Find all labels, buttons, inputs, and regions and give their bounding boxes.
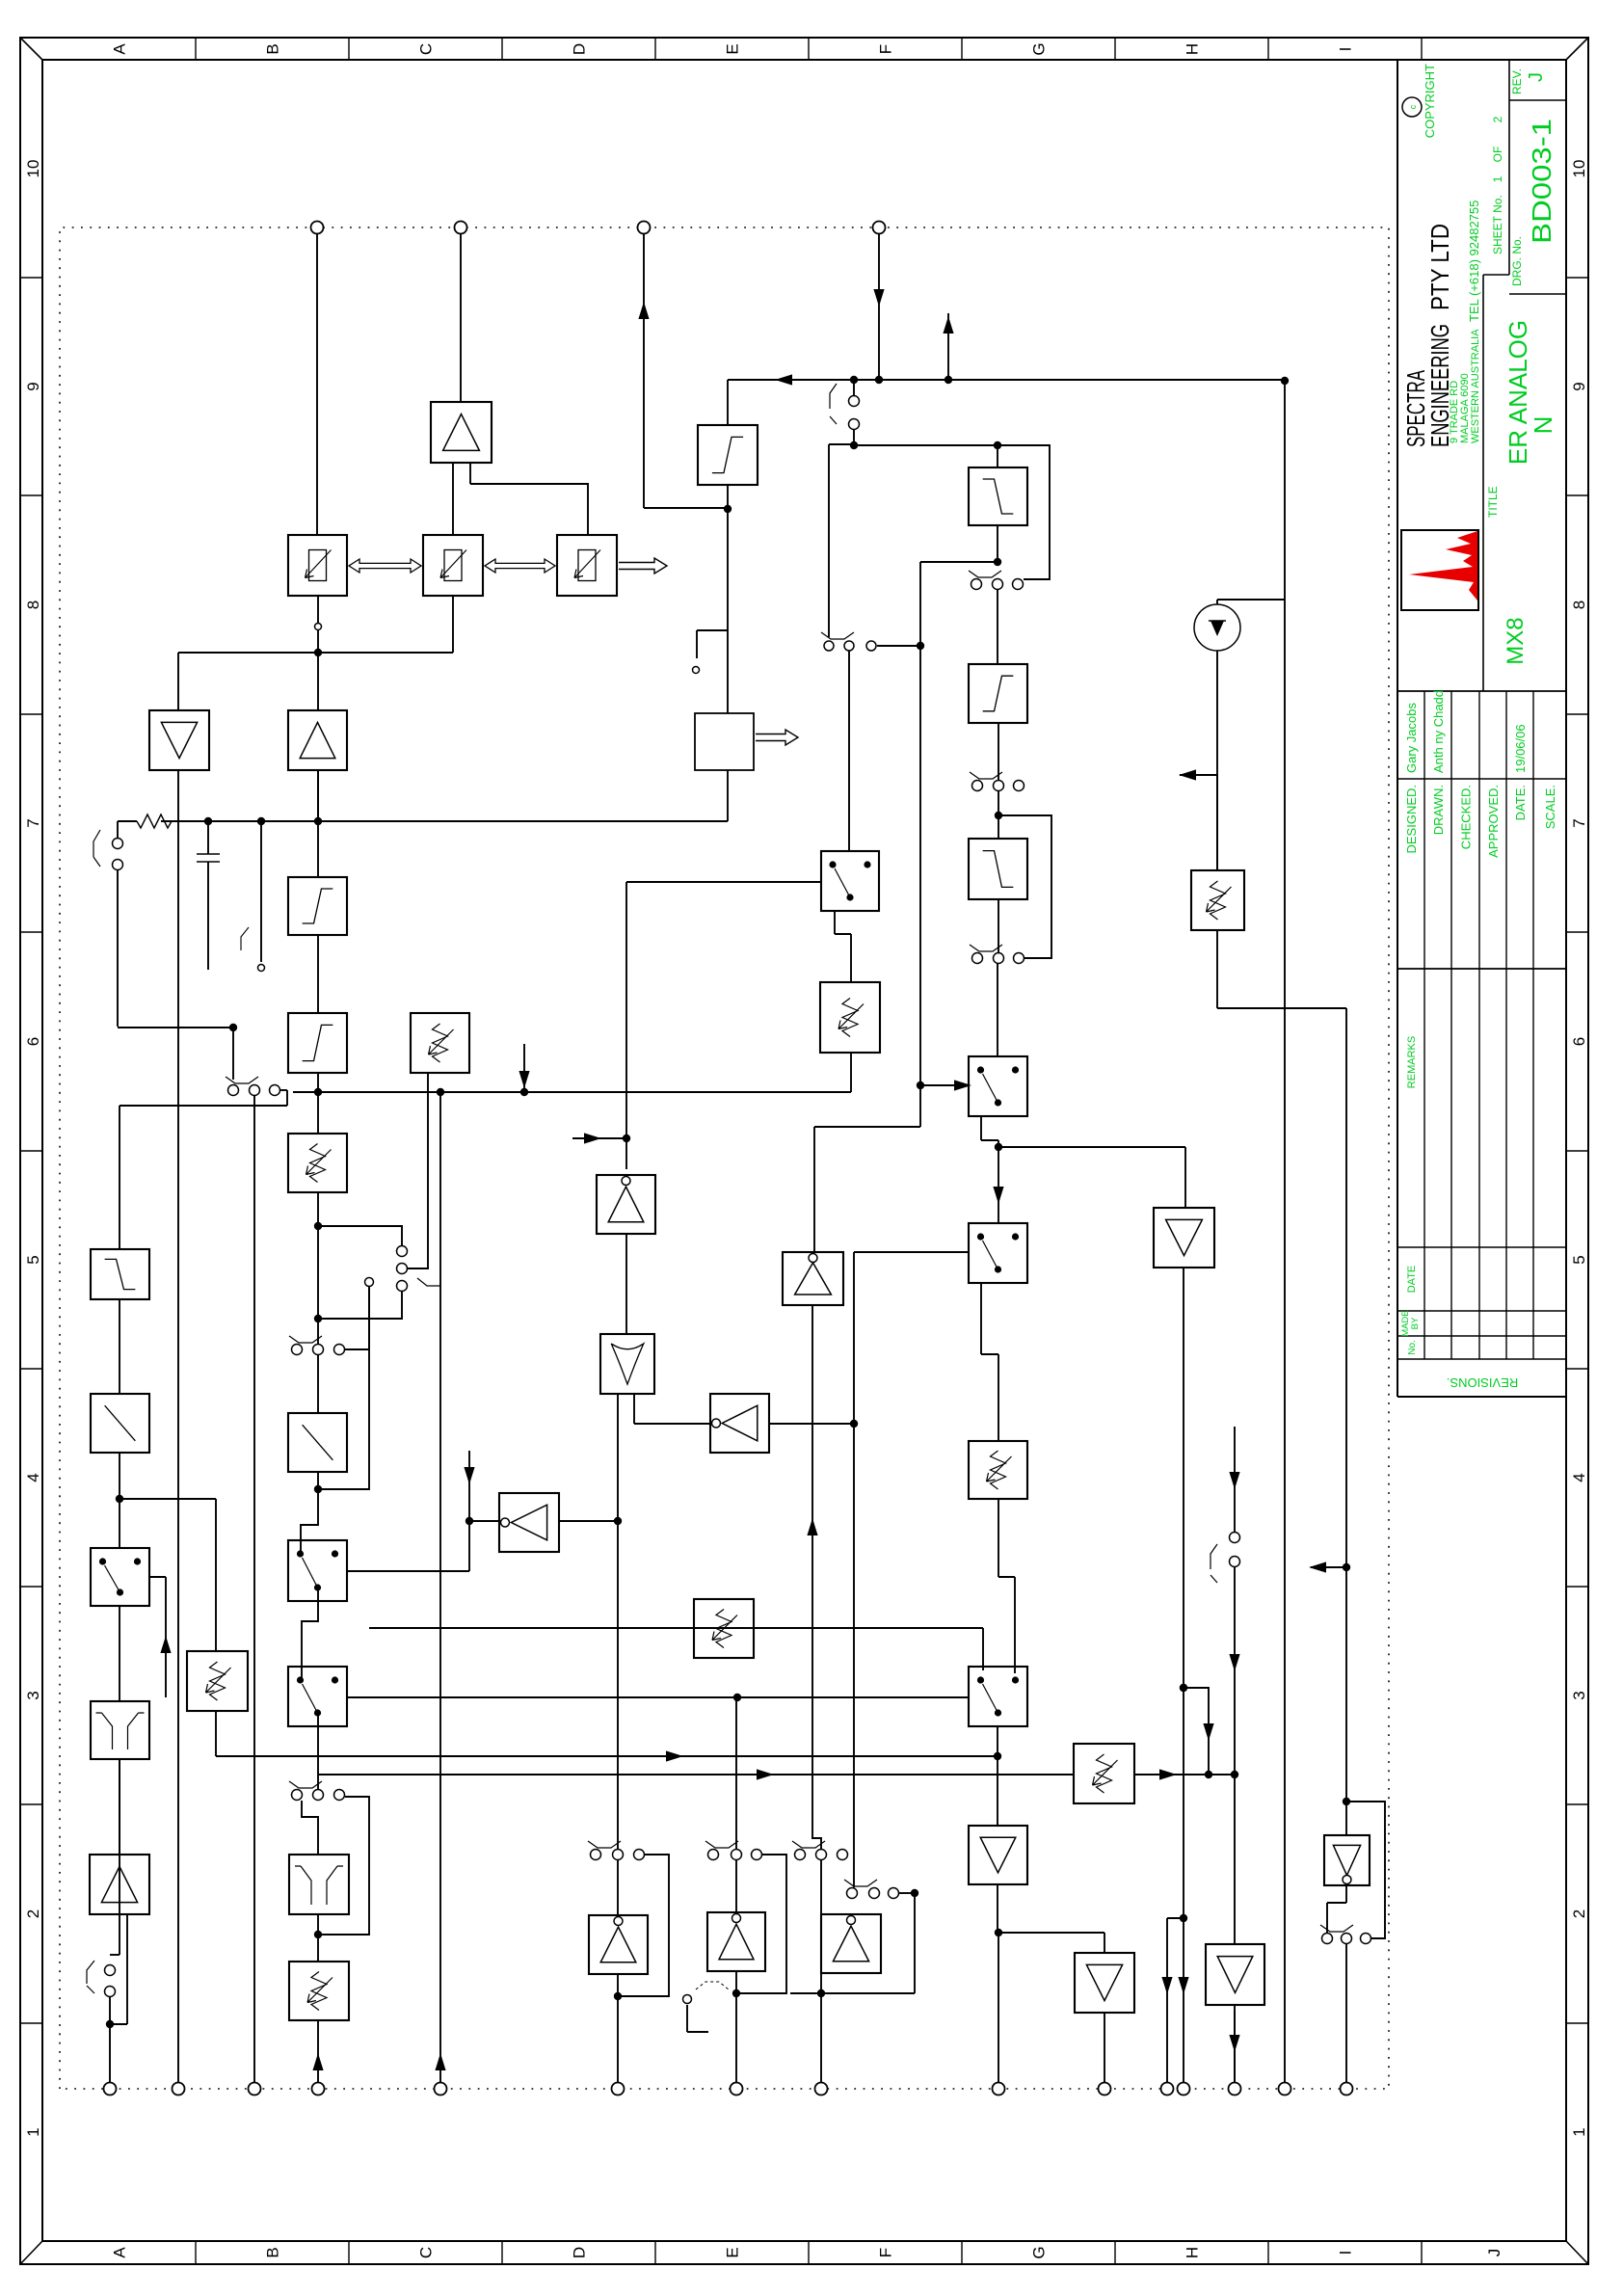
wire amp14 in2 — [110, 2023, 127, 2025]
wire pin668 corner — [644, 507, 728, 509]
wire box11-dot — [119, 1453, 120, 1499]
wire dot-inv40 — [820, 1973, 822, 1993]
svg-text:5: 5 — [1570, 1255, 1588, 1264]
junction V2-216 — [204, 817, 212, 825]
connector pin left y=264 — [249, 2083, 261, 2096]
junction 1192-1036 — [995, 1143, 1002, 1151]
svg-text:DRG. No.: DRG. No. — [1510, 236, 1524, 286]
wire S3-dot — [998, 791, 999, 815]
wire box10-box11 — [119, 1299, 120, 1394]
switch S15 lever — [844, 1880, 877, 1886]
junction 621-765 — [733, 1694, 741, 1701]
wire sw25 out — [980, 1283, 982, 1354]
wire y886 long — [853, 1252, 855, 1887]
gang arrow B-C — [485, 559, 555, 573]
wire inv43 out — [1345, 1885, 1347, 1903]
inverter U13 — [1324, 1835, 1370, 1885]
junction 1201-650 — [623, 1135, 630, 1142]
wire sw6 bypass — [318, 1286, 369, 1489]
svg-text:I: I — [1337, 47, 1355, 52]
wire inv32 in — [559, 1520, 618, 1522]
wire S10-sw7 — [317, 1715, 319, 1789]
svg-text:9: 9 — [1570, 382, 1588, 390]
filter block HP2 — [698, 425, 758, 485]
switch S10 contacts — [292, 1790, 303, 1801]
resistor on V2 — [118, 820, 137, 822]
junction V3-544 — [520, 1088, 528, 1096]
wire V8 lower — [754, 1627, 983, 1629]
wire S15 branch — [914, 1893, 916, 1993]
fader pot PB — [423, 535, 483, 596]
arrow S16b — [1229, 1472, 1239, 1489]
wire amp16 outA — [452, 463, 454, 535]
junction 631-1228b — [1180, 1684, 1187, 1692]
wire inv39-S13 — [735, 1860, 737, 1912]
svg-text:Gary Jacobs: Gary Jacobs — [1404, 703, 1419, 773]
junction V3-330 — [314, 1088, 322, 1096]
svg-text:No.: No. — [1407, 1340, 1418, 1355]
svg-text:E: E — [724, 2247, 742, 2257]
connector pin left y=852 — [815, 2083, 828, 2096]
frame corner diagonals — [20, 2241, 42, 2264]
connector pin left y=185 — [173, 2083, 185, 2096]
wire V1 bus — [728, 379, 1285, 381]
switch S3 lever — [970, 772, 1002, 779]
wire V7 arrow2 — [1159, 1769, 1177, 1779]
switch S6 contacts — [113, 839, 123, 849]
wire amp16 outB — [469, 463, 471, 484]
wire pot9b right — [215, 1499, 217, 1651]
wire inv29b out — [813, 1127, 815, 1252]
svg-text:G: G — [1030, 2246, 1049, 2258]
small circle 271 — [258, 965, 265, 972]
wire S16 feed — [1234, 1427, 1236, 1532]
switch box SW7 — [288, 1667, 347, 1726]
svg-text:A: A — [111, 2247, 129, 2258]
svg-text:REVISIONS.: REVISIONS. — [1447, 1375, 1518, 1390]
switch S15 contacts — [847, 1888, 858, 1899]
offsheet stub 984 — [947, 313, 949, 380]
switch S4 lever — [970, 945, 1002, 951]
approval table grid — [1423, 691, 1425, 969]
input amplifier U1 — [90, 1855, 149, 1914]
wire H9 chain — [1183, 1918, 1184, 2083]
svg-text:J: J — [1485, 2249, 1503, 2257]
svg-text:ER ANALOG: ER ANALOG — [1503, 320, 1532, 465]
wire S12-OR — [617, 1394, 619, 1849]
svg-text:B: B — [264, 2247, 282, 2257]
junction V1-886 — [850, 376, 858, 384]
wire box3-box2 — [317, 935, 319, 1013]
svg-text:3: 3 — [24, 1691, 42, 1699]
switch S13 lever — [705, 1841, 738, 1848]
connector pin left y=1146 — [1099, 2083, 1111, 2096]
wire pot26 out — [998, 1499, 999, 1577]
wire inv43 bypass — [1346, 1802, 1385, 1938]
wire S14 link H6 — [812, 1305, 821, 1849]
junction 1854-755 — [724, 505, 732, 513]
arrow inv32 stub — [464, 1467, 474, 1484]
wire S7 bottom link — [318, 1292, 402, 1319]
wire conn8-S10 — [302, 1801, 318, 1855]
connector pin right y=668 — [638, 222, 651, 234]
svg-text:PTY LTD: PTY LTD — [1425, 224, 1454, 310]
wire csrc to V11 — [1217, 599, 1285, 601]
wire pot35 left — [1216, 930, 1218, 1008]
svg-text:H: H — [1184, 43, 1202, 55]
svg-text:MX8: MX8 — [1503, 617, 1529, 664]
wire Fc bypass — [998, 815, 1051, 958]
svg-text:D: D — [571, 43, 589, 55]
junction V1-corner — [1281, 377, 1289, 385]
fader pot PC — [557, 535, 617, 596]
aux pot P33 — [694, 1599, 754, 1658]
wire pot21-V3 — [850, 1053, 852, 1092]
wire inv32 out — [469, 1520, 504, 1522]
svg-text:CHECKED.: CHECKED. — [1459, 785, 1474, 849]
wire V3 bus — [293, 1091, 851, 1093]
switch S8 contacts — [292, 1345, 303, 1355]
wire feedback to sw20 — [625, 882, 627, 1138]
svg-text:A: A — [111, 43, 129, 55]
inverter U10 — [821, 1914, 881, 1973]
svg-text:19/06/06: 19/06/06 — [1513, 724, 1528, 773]
send pot P35 — [1191, 870, 1244, 930]
wire inv29 in stub — [572, 1137, 626, 1139]
wire inv40 bypass — [790, 1992, 821, 1994]
connector pin right y=329 — [311, 222, 324, 234]
filter block LP3 — [969, 664, 1027, 723]
switch box SW12 — [91, 1548, 149, 1606]
wire V7 bus — [318, 1774, 1074, 1775]
wire V3-box3 — [317, 1073, 319, 1092]
wire branch to tri15 — [178, 652, 318, 654]
junction 804-487 — [466, 1517, 473, 1525]
junction 377-1036 — [995, 1929, 1002, 1936]
connector pin left y=457 — [435, 2083, 447, 2096]
junction 1316-242 — [229, 1024, 237, 1031]
svg-text:8: 8 — [1570, 601, 1588, 609]
wire 965 long — [919, 562, 921, 1085]
arrow inv29 stub — [584, 1133, 601, 1143]
svg-text:5: 5 — [24, 1255, 42, 1264]
small circle on wire — [315, 624, 322, 630]
circle 1052-383 — [365, 1278, 374, 1287]
switch box SW20 — [821, 851, 879, 911]
wire tri28 out — [997, 1884, 998, 1933]
arrow sw25 feed — [993, 1187, 1003, 1204]
junction 1253-965 — [917, 1081, 924, 1089]
line driver U12 — [1206, 1944, 1264, 2005]
junction V2-330 — [314, 817, 322, 825]
junction 541-1254 — [1205, 1771, 1212, 1778]
arrow 544 — [519, 1071, 529, 1088]
wire H2 chain — [253, 1096, 255, 2083]
wire S13-V5 — [735, 1697, 737, 1849]
wire SB right down — [877, 645, 920, 647]
connector pin left y=114 — [104, 2083, 117, 2096]
wire SB mid to sw20 — [848, 651, 850, 851]
wire pot35 corner — [1217, 1007, 1346, 1009]
wire inv29 in — [625, 1138, 627, 1169]
wire arrow into sw24 — [920, 1084, 960, 1086]
filter block LP2 — [969, 467, 1027, 525]
wire 827 link — [120, 1498, 216, 1500]
switch S6 lever — [93, 830, 100, 867]
line receiver U5 — [969, 1826, 1027, 1884]
svg-text:I: I — [1337, 2251, 1355, 2256]
arrow H4 — [435, 2053, 445, 2070]
wire Fc-S4 — [998, 899, 999, 952]
meter block M1 — [695, 713, 754, 770]
wire H11 chain — [1284, 381, 1286, 2083]
svg-text:DATE: DATE — [1406, 1266, 1418, 1294]
company logo — [1401, 530, 1478, 610]
wire V1dot-S1 — [853, 380, 855, 395]
switch SB contacts — [824, 641, 834, 651]
grid tick lines — [20, 2022, 42, 2024]
filter block S1 — [288, 1013, 347, 1073]
arrow 1254 branch — [1203, 1723, 1213, 1741]
svg-text:8: 8 — [24, 601, 42, 609]
arrow 1211 — [1161, 1977, 1172, 1994]
wire cap branch a — [207, 821, 209, 854]
svg-text:N: N — [1529, 416, 1557, 435]
switch box SW24 — [969, 1056, 1027, 1116]
wire V2 bus — [161, 820, 728, 822]
gang arrow A-B — [349, 559, 421, 573]
wire 1235 link — [120, 1105, 287, 1107]
svg-text:10: 10 — [24, 160, 42, 178]
wire dot-branch965 — [920, 561, 998, 563]
arrow box12 side — [160, 1636, 171, 1653]
svg-text:3: 3 — [1570, 1691, 1588, 1699]
switch S10 lever — [289, 1781, 322, 1788]
aux pot P34 — [1074, 1744, 1134, 1803]
wire branch 1254 — [1184, 1688, 1209, 1775]
wire Fa bypass — [998, 445, 1050, 579]
inverter U6 — [597, 1175, 655, 1234]
arrow V6 — [666, 1750, 683, 1761]
pan pot P47 — [411, 1013, 469, 1073]
wire tri37 out — [1183, 1268, 1184, 1688]
wire S1-junction — [853, 430, 855, 444]
trim pot P21 — [820, 982, 880, 1053]
connector pin left y=1333 — [1279, 2083, 1291, 2096]
switch S2 contacts — [971, 579, 982, 590]
svg-text:6: 6 — [24, 1037, 42, 1046]
svg-text:c: c — [1408, 104, 1418, 109]
wire inv39 bypass — [736, 1855, 786, 1993]
junction 1799-1035 — [994, 558, 1001, 566]
junction 827-124 — [116, 1495, 123, 1503]
wire dot-box5 — [317, 1472, 319, 1489]
wire tri42 to pin — [1234, 2005, 1236, 2083]
wire pot4-V3 — [317, 1092, 319, 1134]
svg-text:7: 7 — [1570, 818, 1588, 827]
svg-text:WESTERN AUSTRALIA: WESTERN AUSTRALIA — [1470, 329, 1481, 443]
svg-text:6: 6 — [1570, 1037, 1588, 1046]
wire main bus left chain — [177, 770, 179, 2083]
wire input pin912 — [878, 233, 880, 380]
wire potB-V — [452, 596, 454, 653]
wire S15 down — [899, 1892, 915, 1894]
output amplifier U3 — [288, 710, 347, 770]
junction 541-1281 — [1231, 1771, 1238, 1778]
arrow pot35 stub — [1179, 769, 1196, 780]
input pot P2 — [289, 1962, 349, 2020]
wire box12-box13 — [119, 1606, 120, 1701]
or gate G1 — [600, 1334, 654, 1394]
junction 560-1035 — [994, 1752, 1001, 1760]
wire Fb-S3 — [998, 723, 999, 780]
inverter U9 — [707, 1912, 765, 1971]
wire box2-V2 — [317, 821, 319, 877]
filter block HP1 — [288, 877, 347, 935]
line driver U2 — [149, 710, 209, 770]
wire 1920 vert — [854, 444, 998, 446]
filter block LP4 — [969, 839, 1027, 899]
switch box SW27 — [969, 1667, 1027, 1726]
wire S8-dot1014 — [317, 1319, 319, 1344]
junction 1014-330 — [314, 1315, 322, 1322]
svg-text:2: 2 — [24, 1909, 42, 1918]
junction 1920-1035 — [994, 441, 1001, 449]
wire Fa-dot — [997, 525, 998, 562]
wire amp1-V2 — [317, 770, 319, 821]
wire S7 top link — [318, 1226, 402, 1251]
wire S6 left run — [117, 870, 119, 1027]
gang arrow C out — [619, 558, 667, 574]
wire pinG — [998, 1933, 999, 2083]
switch S8 lever — [289, 1336, 322, 1343]
svg-text:F: F — [877, 44, 895, 54]
switch S17 contacts — [1322, 1934, 1333, 1944]
not gate G2 — [710, 1394, 769, 1453]
switch S12 contacts — [591, 1850, 601, 1860]
wire box12 side — [149, 1576, 166, 1578]
junction 756-1397 — [1343, 1563, 1350, 1571]
svg-text:D: D — [571, 2247, 589, 2258]
junction 1705-330 — [314, 649, 322, 656]
svg-text:APPROVED.: APPROVED. — [1486, 785, 1501, 858]
wire V4 bus — [998, 1146, 1185, 1148]
wire dot-box12 — [119, 1499, 120, 1548]
inverter U6b — [783, 1252, 843, 1305]
wire S8 right link — [345, 1348, 369, 1350]
wire V2 to switch S6 — [117, 821, 119, 838]
wire tri28 in — [997, 1756, 998, 1826]
svg-text:E: E — [724, 43, 742, 54]
wire dot-Fc — [998, 815, 999, 839]
wire V5 bus — [347, 1696, 969, 1698]
svg-text:7: 7 — [24, 818, 42, 827]
wire box13-S11 — [119, 1759, 120, 1955]
arrow pinC — [312, 2053, 323, 2070]
switch lever 271 — [241, 927, 249, 950]
junction 837-330 — [314, 1485, 322, 1493]
switch S14 lever — [792, 1841, 825, 1848]
svg-text:C: C — [417, 2247, 436, 2258]
wire 1920-filtFa — [997, 445, 998, 467]
switch box SW6 — [288, 1540, 347, 1601]
wire 965-1213 jog — [919, 1085, 921, 1127]
buffer amp U4 — [431, 402, 492, 463]
junction V1-912 — [875, 376, 883, 384]
current source — [1194, 604, 1240, 651]
svg-text:1: 1 — [1491, 175, 1504, 182]
wire filt18-V1 — [727, 380, 729, 425]
wire box10-1235 — [119, 1106, 120, 1249]
wire pinC-pot9 — [317, 2020, 319, 2083]
wire junction-amp1 — [317, 653, 319, 710]
wire H9b — [1183, 1688, 1184, 1918]
gain pot P1 — [288, 1134, 347, 1192]
wire tri41 in — [998, 1932, 1104, 1934]
junction 513-1397 — [1343, 1798, 1350, 1805]
arrow into sw24 — [954, 1080, 971, 1090]
switch S13 contacts — [708, 1850, 719, 1860]
wire box19-filt18 — [727, 485, 729, 713]
hollow arrow box19 — [756, 730, 798, 745]
wire sw24 out — [980, 1116, 982, 1140]
switch S16 lever — [1211, 1544, 1217, 1583]
wire conn8 bypass — [318, 1797, 369, 1935]
svg-text:REMARKS: REMARKS — [1406, 1036, 1418, 1088]
capacitor — [197, 853, 220, 855]
attenuator A2 — [288, 1413, 347, 1472]
wire S17 mid-pin — [1345, 1944, 1347, 2083]
switch S2 lever — [969, 571, 1001, 577]
wire NOT31 in — [769, 1423, 854, 1425]
stub inv32 — [468, 1451, 470, 1521]
stub arrow 1397 — [1311, 1566, 1346, 1568]
svg-text:TEL (+618) 92482755: TEL (+618) 92482755 — [1467, 200, 1481, 322]
wire sw20 out — [834, 911, 836, 934]
connector pin left y=330 — [312, 2083, 325, 2096]
monitor driver U14 — [1154, 1208, 1214, 1268]
switch SB lever — [821, 632, 854, 639]
wire cap branch b — [207, 862, 209, 970]
wire inv38-S12 — [617, 1860, 619, 1915]
switch S3 contacts — [972, 781, 983, 791]
arrow S16a — [1229, 1654, 1239, 1671]
wire pinD-dot — [617, 1996, 619, 2083]
wire V2-amp1 — [317, 770, 319, 821]
svg-text:J: J — [1526, 72, 1547, 82]
junction 1712-955 — [917, 642, 924, 650]
switch S12 lever — [588, 1841, 621, 1848]
wire pin668 run — [643, 233, 645, 508]
filter block LP1 — [91, 1249, 149, 1299]
svg-text:OF: OF — [1491, 147, 1504, 163]
trim pot P26 — [969, 1441, 1027, 1499]
arrow H9 — [1178, 1977, 1188, 1994]
svg-text:C: C — [417, 43, 436, 55]
switch S17 lever — [1320, 1925, 1353, 1932]
wire pinF-dot — [820, 1993, 822, 2083]
svg-text:BD003-1: BD003-1 — [1527, 119, 1556, 244]
wire csrc right — [1216, 600, 1218, 604]
wire S5r — [280, 1089, 287, 1091]
wire sw6-dot — [301, 1489, 318, 1553]
wire dot-inv39 — [735, 1971, 737, 1993]
revisions table grid — [1397, 60, 1398, 1397]
svg-text:2: 2 — [1570, 1909, 1588, 1918]
arrow pin668 — [638, 302, 649, 319]
wire pinE-dot — [735, 1993, 737, 2083]
wire sw7-sw6 — [302, 1589, 318, 1680]
